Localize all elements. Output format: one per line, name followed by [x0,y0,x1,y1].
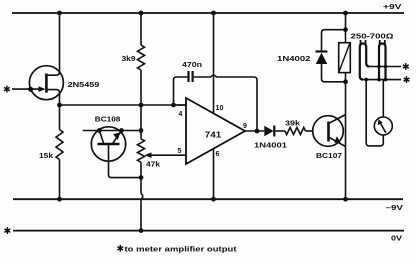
svg-text:BC107: BC107 [316,151,342,160]
svg-text:15k: 15k [39,151,54,160]
svg-text:–9V: –9V [386,203,404,212]
svg-text:1N4002: 1N4002 [277,54,311,63]
svg-text:470n: 470n [182,60,202,69]
svg-text:6: 6 [216,151,220,158]
svg-text:10: 10 [216,105,224,112]
svg-text:47k: 47k [146,160,161,169]
svg-text:741: 741 [205,131,222,140]
svg-text:39k: 39k [285,119,301,128]
svg-text:5: 5 [178,148,182,155]
svg-text:250-700Ω: 250-700Ω [351,32,394,41]
svg-text:2N5459: 2N5459 [68,80,100,89]
svg-text:0V: 0V [391,234,402,243]
svg-text:3k9: 3k9 [122,54,136,63]
svg-text:BC108: BC108 [95,115,121,124]
svg-text:9: 9 [243,123,247,130]
svg-text:1N4001: 1N4001 [254,141,287,150]
svg-text:4: 4 [179,111,183,118]
svg-text:+9V: +9V [383,2,402,11]
svg-text:to meter amplifier output: to meter amplifier output [125,245,238,254]
